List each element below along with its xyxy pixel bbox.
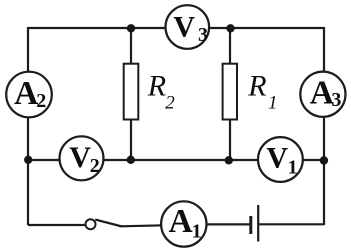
svg-text:2: 2 xyxy=(90,155,100,177)
svg-text:V: V xyxy=(173,11,195,44)
svg-text:1: 1 xyxy=(192,221,202,243)
svg-text:A: A xyxy=(169,203,193,240)
svg-text:R: R xyxy=(147,69,166,102)
svg-text:3: 3 xyxy=(198,24,208,46)
svg-text:1: 1 xyxy=(288,156,298,178)
svg-text:A: A xyxy=(310,74,334,111)
svg-text:2: 2 xyxy=(165,92,175,113)
svg-text:R: R xyxy=(247,69,266,102)
svg-text:3: 3 xyxy=(331,89,341,111)
svg-text:1: 1 xyxy=(268,92,278,113)
svg-text:V: V xyxy=(266,142,288,175)
svg-text:V: V xyxy=(69,141,91,174)
svg-text:2: 2 xyxy=(36,90,46,112)
svg-text:A: A xyxy=(14,75,38,112)
